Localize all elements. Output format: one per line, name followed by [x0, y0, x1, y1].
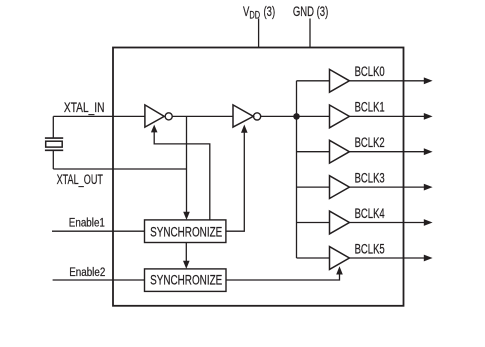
buffer A0	[330, 69, 350, 92]
svg-text:BCLK2: BCLK2	[355, 136, 385, 151]
svg-text:Enable2: Enable2	[69, 266, 105, 279]
wire clock bus vertical	[296, 81, 298, 258]
svg-text:XTAL_OUT: XTAL_OUT	[57, 173, 103, 187]
crystal Y1 body	[46, 141, 63, 147]
wire BCLK0 output	[349, 80, 425, 82]
wire enable feedback to U1	[154, 132, 210, 220]
arrowhead BCLK3	[424, 184, 433, 191]
VDD pin wire	[258, 19, 260, 48]
wire BCLK2 output	[349, 151, 425, 153]
arrowhead BCLK4	[424, 219, 433, 226]
wire stub to buffer A5	[297, 257, 330, 259]
inverter U1 triangle	[145, 105, 164, 127]
wire BCLK1 output	[349, 115, 425, 117]
IC body box	[113, 48, 404, 306]
wire stub to buffer A4	[297, 222, 330, 224]
svg-text:BCLK0: BCLK0	[355, 65, 386, 80]
crystal Y1 top plate	[45, 137, 63, 139]
svg-text:V: V	[243, 4, 249, 19]
wire U1 output to SYNCHRONIZE1 (feedback vertical)	[186, 116, 188, 212]
svg-text:(3): (3)	[264, 4, 276, 19]
wire XTAL_OUT	[53, 168, 186, 170]
buffer A5	[330, 247, 350, 270]
inverter U2 bubble	[254, 113, 261, 120]
svg-text:GND (3): GND (3)	[293, 4, 328, 19]
svg-text:BCLK1: BCLK1	[355, 100, 385, 115]
buffer A1	[330, 105, 350, 128]
wire Enable2	[53, 279, 145, 281]
buffer A4	[330, 211, 350, 234]
arrowhead BCLK2	[424, 148, 433, 155]
buffer A2	[330, 140, 350, 163]
svg-text:XTAL_IN: XTAL_IN	[64, 100, 105, 116]
wire crystal top lead	[52, 116, 54, 137]
inverter U1 bubble	[165, 113, 172, 120]
wire stub to buffer A3	[297, 186, 330, 188]
wire SYNCHRONIZE1 out to U2 enable	[226, 132, 244, 231]
arrowhead into SYNCHRONIZE2	[183, 261, 190, 269]
node clock junction dot	[293, 113, 300, 120]
wire BCLK5 output	[349, 257, 425, 259]
SYNCHRONIZE box 2	[145, 269, 227, 292]
wire SYNCHRONIZE2 out to A5 enable	[226, 274, 340, 280]
svg-text:BCLK3: BCLK3	[355, 171, 385, 186]
wire stub to buffer A2	[297, 151, 330, 153]
svg-text:SYNCHRONIZE: SYNCHRONIZE	[150, 224, 222, 240]
inverter U2 triangle	[233, 105, 253, 127]
wire crystal bottom lead	[52, 151, 54, 169]
wire BCLK3 output	[349, 186, 425, 188]
arrowhead U2 enable	[241, 125, 248, 133]
arrowhead BCLK1	[424, 113, 433, 120]
arrowhead A5 enable	[336, 266, 343, 274]
wire XTAL_IN	[53, 115, 145, 117]
wire U1 out to U2 in	[172, 115, 233, 117]
wire BCLK4 output	[349, 222, 425, 224]
svg-text:BCLK4: BCLK4	[355, 206, 386, 221]
wire SYNCHRONIZE1 to SYNCHRONIZE2	[185, 243, 187, 262]
SYNCHRONIZE box 1	[145, 220, 226, 243]
wire U2 out to BCLK1 buffer	[261, 115, 330, 117]
svg-text:BCLK5: BCLK5	[355, 242, 386, 257]
arrowhead U1 enable	[151, 125, 158, 133]
arrowhead into SYNCHRONIZE1	[183, 212, 190, 220]
crystal Y1 bottom plate	[45, 149, 63, 151]
arrowhead BCLK0	[424, 77, 433, 84]
wire Enable1	[52, 230, 145, 232]
wire stub to buffer A0	[297, 80, 330, 82]
svg-text:Enable1: Enable1	[69, 217, 105, 230]
GND pin wire	[309, 19, 311, 48]
svg-text:SYNCHRONIZE: SYNCHRONIZE	[150, 272, 222, 288]
arrowhead BCLK5	[424, 255, 433, 262]
svg-text:DD: DD	[249, 9, 260, 21]
buffer A3	[330, 176, 350, 199]
